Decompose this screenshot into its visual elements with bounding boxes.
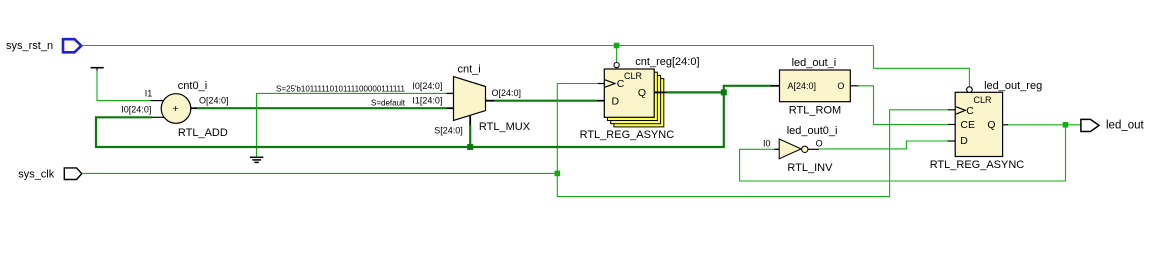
wire led_out feedback to inverter input xyxy=(740,125,1066,181)
svg-text:C: C xyxy=(966,105,974,117)
svg-text:cnt_reg[24:0]: cnt_reg[24:0] xyxy=(635,56,699,68)
pin stub S of mux xyxy=(469,116,471,125)
wire sys_clk down and right to led_out_reg C xyxy=(557,110,948,197)
pin stub O of adder xyxy=(191,107,198,109)
svg-text:RTL_INV: RTL_INV xyxy=(787,162,833,174)
svg-text:O[24:0]: O[24:0] xyxy=(492,88,522,98)
bus mux O to cnt_reg D xyxy=(495,100,597,102)
constant 1 tie (T symbol) for adder I1 xyxy=(91,68,104,71)
pin stub I1 of mux xyxy=(447,107,454,109)
pin stub D of cnt_reg xyxy=(597,100,605,102)
pin stub Q of led_out_reg xyxy=(1003,124,1008,126)
wire gnd up and right to mux I0 xyxy=(257,93,447,156)
pin stub C of led_out_reg xyxy=(948,109,955,111)
adder cnt0_i (RTL_ADD) xyxy=(161,80,228,139)
junction sys_clk xyxy=(555,171,561,177)
wire sys_clk to cnt_reg C xyxy=(557,84,598,174)
svg-text:RTL_REG_ASYNC: RTL_REG_ASYNC xyxy=(580,129,675,141)
junction led_out feedback xyxy=(1063,122,1069,128)
svg-text:I1: I1 xyxy=(145,89,153,99)
inverter bubble xyxy=(802,146,808,152)
svg-text:CLR: CLR xyxy=(974,95,993,105)
svg-text:O: O xyxy=(816,139,823,149)
bus feedback down-left to adder I0 xyxy=(96,92,724,147)
junction S on feedback bus xyxy=(467,144,473,150)
pin stub D of led_out_reg xyxy=(947,140,955,142)
pin stub I1 of adder xyxy=(150,100,163,102)
svg-text:led_out_i: led_out_i xyxy=(792,57,837,69)
wire ROM O to led_out_reg CE xyxy=(859,86,949,125)
pin stub C of cnt_reg xyxy=(598,83,605,85)
junction Q feedback xyxy=(721,89,727,95)
svg-text:RTL_ADD: RTL_ADD xyxy=(178,127,228,139)
svg-text:RTL_MUX: RTL_MUX xyxy=(479,121,531,133)
bus cnt_reg Q to junction xyxy=(667,91,724,93)
bus junction up to ROM A xyxy=(724,86,771,93)
svg-text:I0[24:0]: I0[24:0] xyxy=(412,81,442,91)
pin stub I0 of mux xyxy=(447,92,454,94)
bus S of mux down to feedback bus xyxy=(469,125,471,147)
wire inverter O to led_out_reg D xyxy=(819,141,947,149)
pin stub O of mux xyxy=(486,100,495,102)
bus adder O to mux I1 xyxy=(197,107,446,109)
pin stub A of ROM xyxy=(771,85,780,87)
register cnt_reg[24:0] (RTL_REG_ASYNC) stacked xyxy=(580,56,700,141)
pin stub O of ROM xyxy=(850,85,858,87)
svg-text:S[24:0]: S[24:0] xyxy=(434,126,463,136)
svg-text:O[24:0]: O[24:0] xyxy=(199,96,229,106)
svg-text:cnt_i: cnt_i xyxy=(458,64,481,76)
svg-text:CLR: CLR xyxy=(624,71,643,81)
pin stub O of inverter xyxy=(808,148,819,150)
svg-text:O: O xyxy=(837,81,844,91)
wire net sys_rst_n horizontal xyxy=(82,45,874,47)
svg-text:Q: Q xyxy=(987,119,995,131)
svg-text:sys_rst_n: sys_rst_n xyxy=(6,40,53,52)
inverter led_out0_i (RTL_INV) xyxy=(779,125,837,174)
register led_out_reg (RTL_REG_ASYNC) xyxy=(930,80,1043,171)
svg-text:sys_clk: sys_clk xyxy=(18,169,55,181)
svg-text:led_out0_i: led_out0_i xyxy=(787,125,838,137)
CLR bubble of led_out_reg xyxy=(967,87,973,93)
svg-text:S=default: S=default xyxy=(371,98,406,107)
ROM led_out_i (RTL_ROM) xyxy=(780,57,851,117)
svg-text:D: D xyxy=(960,135,968,147)
pin stub CE of led_out_reg xyxy=(948,124,955,126)
pin stub I0 of adder xyxy=(152,116,164,118)
svg-text:RTL_ROM: RTL_ROM xyxy=(789,105,841,117)
svg-text:led_out_reg: led_out_reg xyxy=(984,80,1042,92)
svg-text:A[24:0]: A[24:0] xyxy=(788,81,817,91)
junction on sys_rst_n at cnt_reg CLR drop xyxy=(614,43,620,49)
svg-text:D: D xyxy=(612,95,620,107)
svg-text:I1[24:0]: I1[24:0] xyxy=(412,96,442,106)
wire const1 to adder I1 xyxy=(97,71,150,101)
port sys_clk xyxy=(18,168,82,181)
port sys_rst_n xyxy=(6,39,81,52)
ground symbol (constant 0 for mux I0) xyxy=(250,157,263,162)
wire led_out_reg Q to port led_out xyxy=(1008,124,1081,126)
svg-text:Q: Q xyxy=(638,87,646,99)
wire sys_clk horizontal xyxy=(82,172,558,174)
svg-text:RTL_REG_ASYNC: RTL_REG_ASYNC xyxy=(930,159,1025,171)
svg-text:led_out: led_out xyxy=(1106,120,1145,132)
wire net sys_rst_n right branch to led_out_reg CLR xyxy=(874,46,970,87)
pin stub Q of cnt_reg xyxy=(654,91,666,93)
mux cnt_i (RTL_MUX) xyxy=(454,64,531,134)
CLR bubble of cnt_reg xyxy=(614,63,619,68)
svg-text:S=25'b101111101011110000011111: S=25'b1011111010111100000111111 xyxy=(276,84,406,93)
wire sys_rst_n drop to cnt_reg CLR xyxy=(616,46,618,63)
svg-text:I0: I0 xyxy=(763,139,771,149)
port led_out xyxy=(1081,119,1145,131)
svg-text:+: + xyxy=(173,104,179,115)
svg-text:CE: CE xyxy=(960,119,975,131)
svg-text:I0[24:0]: I0[24:0] xyxy=(121,105,151,115)
pin stub I0 of inverter xyxy=(775,148,780,150)
svg-text:cnt0_i: cnt0_i xyxy=(178,80,207,92)
